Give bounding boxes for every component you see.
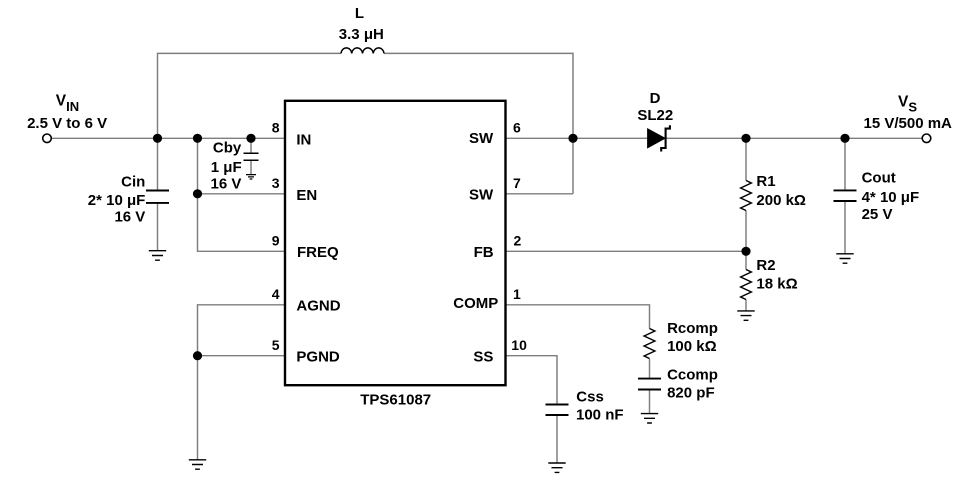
svg-text:7: 7 — [513, 175, 521, 191]
svg-text:L: L — [355, 5, 364, 22]
svg-text:2: 2 — [514, 233, 522, 249]
svg-text:16 V: 16 V — [114, 209, 145, 226]
svg-text:D: D — [650, 90, 661, 107]
svg-text:Rcomp: Rcomp — [667, 320, 718, 337]
svg-text:FB: FB — [474, 244, 494, 261]
svg-text:EN: EN — [296, 187, 317, 204]
svg-text:6: 6 — [513, 120, 521, 136]
svg-text:Cout: Cout — [862, 169, 896, 186]
svg-text:3: 3 — [272, 175, 280, 191]
svg-text:1 μF: 1 μF — [211, 159, 242, 176]
svg-text:200 kΩ: 200 kΩ — [756, 192, 806, 209]
svg-text:8: 8 — [272, 120, 280, 136]
svg-text:SS: SS — [473, 349, 493, 366]
svg-text:AGND: AGND — [296, 297, 340, 314]
svg-text:1: 1 — [513, 286, 521, 302]
svg-text:2.5 V to 6 V: 2.5 V to 6 V — [27, 115, 107, 132]
svg-text:TPS61087: TPS61087 — [360, 392, 431, 409]
svg-text:25 V: 25 V — [862, 206, 893, 223]
svg-text:3.3 μH: 3.3 μH — [339, 26, 384, 43]
svg-text:Ccomp: Ccomp — [667, 367, 718, 384]
svg-text:2* 10 μF: 2* 10 μF — [88, 192, 146, 209]
svg-text:18 kΩ: 18 kΩ — [756, 276, 797, 293]
svg-text:PGND: PGND — [296, 348, 340, 365]
svg-text:100 kΩ: 100 kΩ — [667, 338, 717, 355]
svg-text:FREQ: FREQ — [297, 244, 339, 261]
svg-text:5: 5 — [272, 337, 280, 353]
svg-text:IN: IN — [296, 131, 311, 148]
svg-text:Cin: Cin — [121, 174, 145, 191]
svg-text:100 nF: 100 nF — [576, 406, 624, 423]
svg-text:COMP: COMP — [453, 295, 498, 312]
svg-text:820 pF: 820 pF — [667, 385, 715, 402]
svg-text:4* 10 μF: 4* 10 μF — [862, 189, 920, 206]
svg-text:R2: R2 — [756, 257, 775, 274]
svg-text:9: 9 — [272, 233, 280, 249]
svg-text:SW: SW — [469, 130, 494, 147]
svg-text:4: 4 — [272, 286, 280, 302]
svg-text:SW: SW — [469, 186, 494, 203]
svg-text:R1: R1 — [756, 173, 775, 190]
svg-text:15 V/500 mA: 15 V/500 mA — [864, 115, 953, 132]
svg-text:Css: Css — [576, 389, 604, 406]
svg-text:10: 10 — [511, 337, 527, 353]
svg-text:16 V: 16 V — [211, 176, 242, 193]
svg-text:SL22: SL22 — [637, 107, 673, 124]
svg-text:Cby: Cby — [213, 140, 242, 157]
